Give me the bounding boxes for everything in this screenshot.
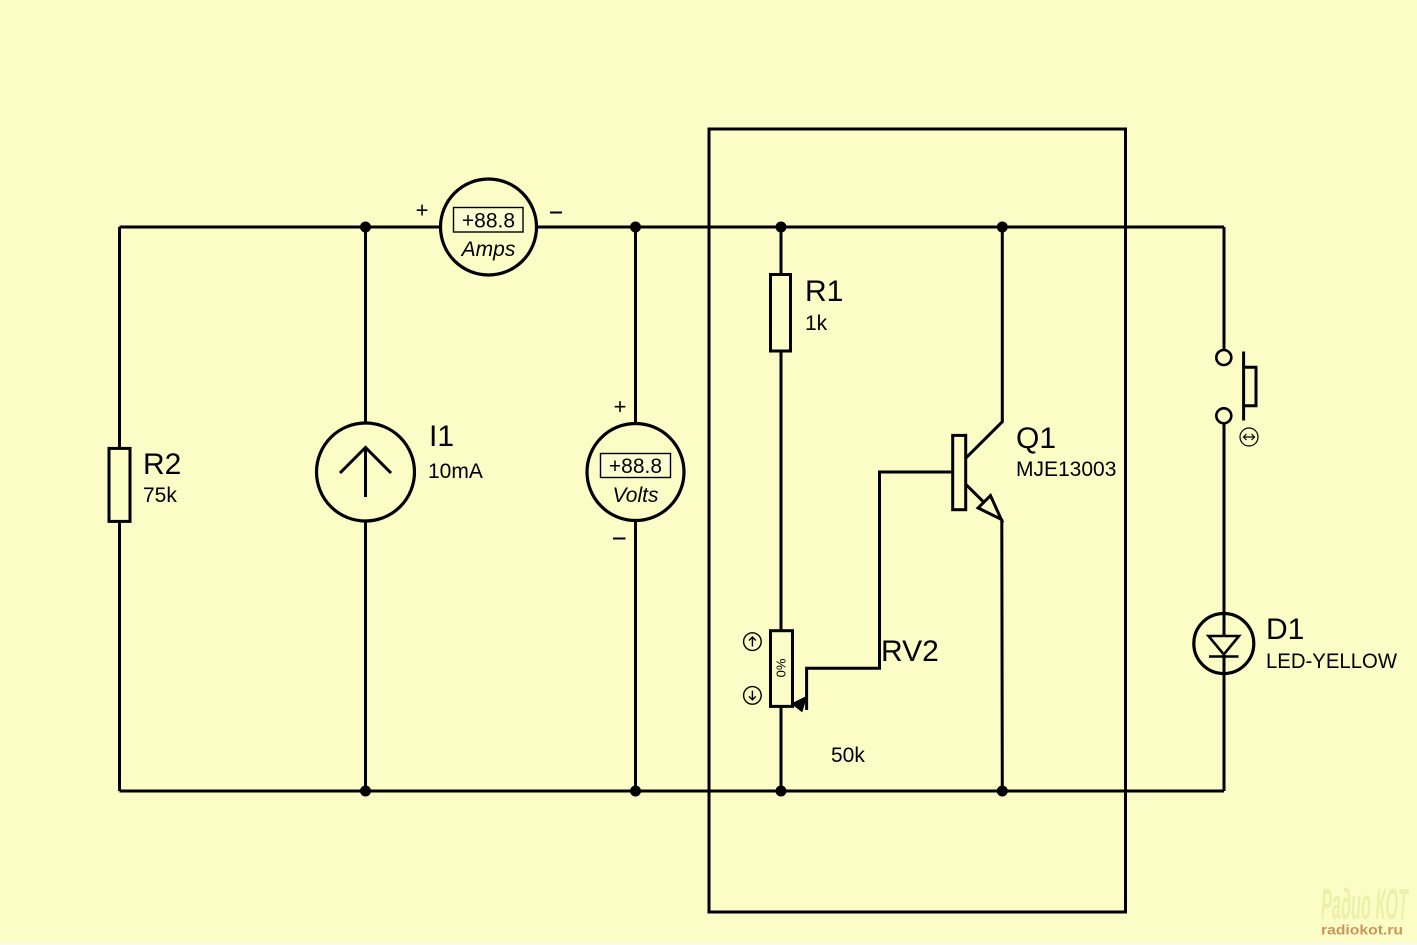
svg-text:MJE13003: MJE13003 <box>1016 458 1116 481</box>
switch SW terminal top <box>1216 350 1231 365</box>
svg-text:R2: R2 <box>143 448 181 481</box>
wire switch to LED <box>1223 423 1226 637</box>
transistor Q1 base bar <box>953 435 966 509</box>
wire LED to bottom rail <box>1223 655 1226 791</box>
wire left branch (R2) <box>118 227 121 791</box>
wire I1 branch <box>364 227 367 791</box>
svg-text:Amps: Amps <box>460 238 516 261</box>
svg-text:radiokot.ru: radiokot.ru <box>1321 923 1403 938</box>
wire emitter branch <box>966 484 1003 791</box>
junction bottom voltmeter <box>630 786 641 797</box>
svg-text:I1: I1 <box>429 420 454 453</box>
bottom edge strip <box>0 942 1417 945</box>
switch SW actuator bracket <box>1244 367 1256 406</box>
junction top R1 <box>776 222 787 233</box>
wire right branch upper (to switch) <box>1223 227 1226 351</box>
junction top I1 <box>360 222 371 233</box>
wire collector branch <box>966 227 1003 458</box>
junction bottom emitter <box>997 786 1008 797</box>
switch SW actuator bar <box>1242 352 1245 421</box>
svg-text:+88.8: +88.8 <box>462 210 515 233</box>
resistor R2 body <box>109 448 130 521</box>
potentiometer RV2 body <box>771 631 793 707</box>
switch SW terminal bottom <box>1216 408 1231 423</box>
voltmeter display box <box>601 454 671 478</box>
svg-text:+: + <box>614 394 627 419</box>
svg-text:RV2: RV2 <box>881 635 939 668</box>
wire top rail <box>120 226 1225 229</box>
junction top collector <box>997 222 1008 233</box>
wire voltmeter branch <box>634 227 637 791</box>
svg-text:+: + <box>416 198 429 223</box>
wire R1/RV2 branch <box>780 227 783 791</box>
svg-text:LED-YELLOW: LED-YELLOW <box>1266 650 1397 673</box>
ammeter display box <box>454 208 524 233</box>
wire bottom rail <box>120 790 1225 793</box>
LED D1 cathode bar <box>1209 655 1239 658</box>
LED D1 anode triangle <box>1209 636 1240 655</box>
voltmeter minus sign <box>613 538 626 540</box>
subcircuit boundary box <box>709 129 1126 912</box>
svg-text:10mA: 10mA <box>428 460 483 483</box>
svg-text:75k: 75k <box>143 484 177 507</box>
current source I1 body <box>317 423 415 521</box>
resistor R1 body <box>771 275 791 352</box>
svg-text:Q1: Q1 <box>1016 422 1056 455</box>
transistor Q1 emitter arrowhead <box>978 496 1001 520</box>
junction bottom I1 <box>360 786 371 797</box>
LED D1 body <box>1194 614 1254 674</box>
ammeter body <box>441 179 537 275</box>
potentiometer RV2 up actuator <box>744 633 762 651</box>
junction top voltmeter <box>630 222 641 233</box>
svg-text:+88.8: +88.8 <box>609 455 662 478</box>
svg-text:D1: D1 <box>1266 613 1304 646</box>
svg-text:Volts: Volts <box>613 484 659 507</box>
potentiometer RV2 down actuator <box>744 687 762 705</box>
wire base to wiper <box>807 472 953 710</box>
svg-text:0%: 0% <box>774 658 789 677</box>
svg-text:50k: 50k <box>831 744 865 767</box>
current source I1 arrow <box>340 448 391 498</box>
junction bottom RV2 <box>776 786 787 797</box>
svg-text:R1: R1 <box>805 275 843 308</box>
potentiometer RV2 wiper arrowhead <box>792 697 807 712</box>
svg-text:1k: 1k <box>805 312 828 335</box>
voltmeter body <box>587 424 684 521</box>
switch SW interactive marker <box>1240 428 1258 446</box>
ammeter minus sign <box>550 212 562 214</box>
